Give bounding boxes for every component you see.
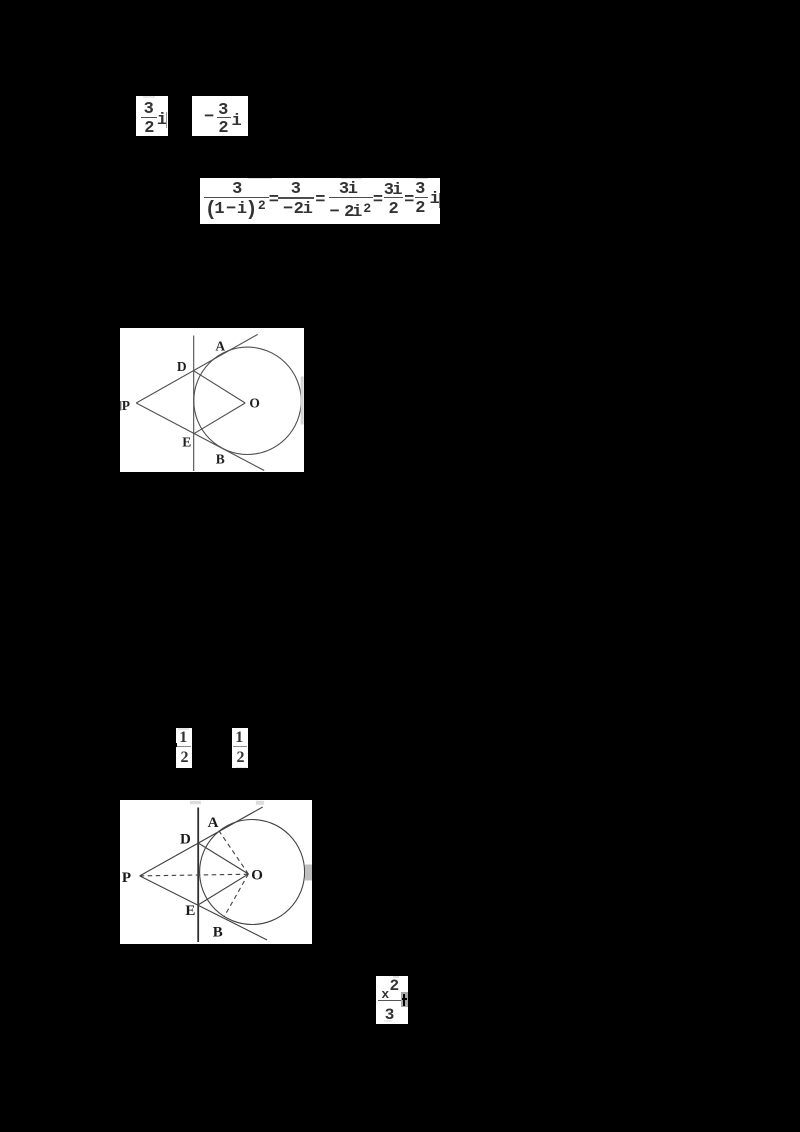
diagram 2 bbox=[120, 800, 312, 945]
formula box: x^2 over 3 bbox=[376, 976, 408, 1024]
diagram 1 bbox=[120, 328, 304, 473]
gray selection handle bbox=[305, 864, 312, 880]
svg-text:E: E bbox=[185, 902, 195, 918]
= bbox=[269, 192, 279, 209]
fraction 5: 3 over 2 bbox=[415, 181, 425, 198]
tangent line P-E-B bbox=[136, 402, 264, 469]
svg-text:O: O bbox=[251, 867, 263, 883]
svg-text:E: E bbox=[182, 434, 191, 449]
svg-text:A: A bbox=[208, 815, 219, 831]
= bbox=[373, 192, 383, 209]
svg-text:A: A bbox=[215, 338, 225, 353]
= bbox=[315, 192, 325, 209]
radius E-O bbox=[194, 402, 245, 433]
vertical line through D,E (thick) bbox=[197, 807, 199, 941]
caret bbox=[439, 193, 440, 208]
svg-text:P: P bbox=[122, 397, 130, 412]
svg-text:D: D bbox=[180, 831, 191, 847]
fraction 4: 3i over 2 bbox=[384, 182, 394, 199]
svg-text:B: B bbox=[215, 451, 224, 466]
radius E-O bbox=[198, 873, 248, 904]
dashed radius O-B bbox=[224, 873, 248, 916]
radius D-O bbox=[198, 843, 248, 874]
fraction 2: 3 over -2i bbox=[291, 181, 301, 198]
edge tick near P bbox=[120, 400, 121, 409]
tangent line P-D-A bbox=[140, 807, 263, 876]
dashed radius O-A bbox=[217, 828, 248, 874]
tangent line P-D-A bbox=[136, 334, 257, 403]
svg-text:B: B bbox=[213, 924, 223, 940]
dashed segment P-O bbox=[140, 874, 249, 876]
black notch artifact bbox=[174, 743, 177, 747]
gray cursor block with plus bbox=[401, 992, 408, 1007]
formula box: -3/2 i bbox=[192, 96, 248, 136]
svg-text:D: D bbox=[177, 359, 187, 374]
trailing i bbox=[430, 191, 440, 208]
circle O bbox=[199, 819, 304, 924]
formula box: 3/2 i bbox=[136, 96, 168, 136]
small fraction 1/2 (second) bbox=[232, 728, 248, 768]
radius D-O bbox=[193, 370, 244, 402]
small fraction 1/2 (first) bbox=[176, 728, 192, 768]
= bbox=[404, 192, 414, 209]
equation box: 3/(1-i)^2 = 3/-2i = 3i/-2i^2 = 3i/2 = 3/2 i bbox=[200, 178, 440, 224]
gray bar artifact at right edge bbox=[300, 376, 303, 424]
tangent line P-E-B bbox=[140, 875, 267, 939]
svg-text:O: O bbox=[249, 395, 260, 410]
fraction 3: 3i over -2i^2 bbox=[339, 181, 349, 198]
fraction 1: 3 over (1-i)^2 bbox=[232, 181, 242, 198]
svg-text:P: P bbox=[122, 869, 131, 885]
circle O bbox=[194, 347, 301, 454]
vertical line through D,E bbox=[192, 335, 194, 470]
